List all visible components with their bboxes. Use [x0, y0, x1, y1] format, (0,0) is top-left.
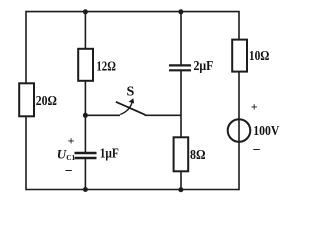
wire left upper	[25, 11, 27, 84]
wire 12ohm branch bottom	[84, 81, 86, 116]
svg-text:S: S	[127, 85, 135, 100]
wire bottom	[26, 189, 239, 191]
resistor 12ohm	[78, 49, 116, 81]
switch S actuation arc with arrow	[120, 103, 132, 115]
svg-text:1μF: 1μF	[100, 146, 119, 161]
wire mid branch bottom	[180, 171, 182, 190]
node switch junction	[83, 113, 88, 118]
switch S blade	[116, 102, 145, 115]
wire right upper	[238, 11, 240, 40]
svg-text:100V: 100V	[253, 124, 279, 139]
resistor 10ohm	[232, 40, 269, 72]
svg-text:10Ω: 10Ω	[249, 49, 270, 64]
wire 1uF branch bottom	[84, 159, 86, 190]
svg-text:20Ω: 20Ω	[36, 94, 57, 109]
resistor 8ohm	[174, 137, 206, 171]
wire switch left	[85, 114, 120, 116]
node bottom-right junction	[178, 187, 183, 192]
node top-right junction	[178, 9, 183, 14]
wire switch right	[145, 114, 182, 116]
resistor 20ohm	[19, 83, 57, 116]
wire mid branch middle	[180, 71, 182, 138]
node top-left junction	[83, 9, 88, 14]
svg-text:2μF: 2μF	[194, 59, 214, 74]
svg-text:+: +	[68, 133, 75, 147]
wire mid branch top	[180, 12, 182, 65]
svg-text:−: −	[253, 143, 261, 158]
svg-text:−: −	[65, 164, 73, 179]
node bottom-left junction	[83, 187, 88, 192]
wire 1uF branch top	[84, 115, 86, 152]
svg-text:12Ω: 12Ω	[96, 60, 116, 75]
wire top	[26, 11, 239, 13]
wire left lower	[25, 116, 27, 191]
svg-text:+: +	[251, 100, 258, 114]
capacitor 1uF (C1)	[75, 146, 119, 161]
svg-text:8Ω: 8Ω	[190, 148, 206, 163]
wire 12ohm branch top	[84, 12, 86, 49]
voltage source 100V	[228, 100, 280, 158]
capacitor 2uF	[169, 59, 213, 74]
wire right lower	[238, 71, 240, 190]
